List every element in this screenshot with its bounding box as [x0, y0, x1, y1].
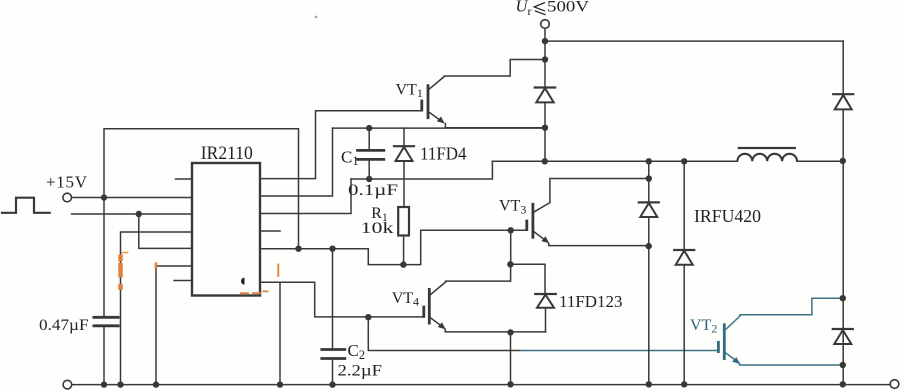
- node VT4 gate wire: [365, 314, 371, 320]
- node top rail: [542, 38, 548, 44]
- +15V terminal: [63, 193, 72, 202]
- node VT1 collector: [542, 56, 548, 62]
- wire HO pin y178.6 to VT1 gate: [260, 111, 422, 179]
- orange highlight marks: [118, 255, 123, 290]
- svg-text:IRFU420: IRFU420: [694, 206, 761, 226]
- wire VT2/VT4 gate line: [368, 317, 520, 350]
- wire pulse input to IC: [72, 213, 193, 215]
- node pulse junction: [136, 211, 142, 217]
- svg-text:2.2µF: 2.2µF: [338, 362, 383, 379]
- diode D6 x684: [683, 161, 685, 384]
- node loop-to-pin: [295, 246, 301, 252]
- node VT2 emitter: [840, 362, 846, 368]
- node VT3 gate: [508, 227, 514, 233]
- node y264: [507, 261, 513, 267]
- capacitor C1 0.1uF: [368, 128, 370, 179]
- wire C1 bottom to switch rail: [351, 161, 492, 179]
- node inductor right: [840, 158, 846, 164]
- top rail: [545, 40, 843, 42]
- node C1 bottom: [366, 176, 372, 182]
- wire VS pin y213.5 up to C1 bottom: [260, 179, 351, 214]
- wire VT2 emitter to right column: [740, 364, 843, 366]
- mark inside IC: [241, 278, 245, 285]
- wire pulse node down to IC pin: [139, 214, 192, 248]
- svg-text:11FD123: 11FD123: [559, 292, 623, 311]
- node VT4 emitter wire: [507, 329, 513, 335]
- IC right stub pin y231: [260, 230, 280, 232]
- IC stub pin y280.5: [174, 280, 192, 282]
- svg-text:IR2110: IR2110: [201, 143, 253, 164]
- pulse input waveform: [2, 198, 50, 213]
- diode D5 x648: [648, 161, 650, 384]
- svg-text:0.1µF: 0.1µF: [348, 182, 398, 199]
- diode 11FD123: [535, 293, 556, 295]
- wire VT4 collector up to node y264: [446, 264, 511, 281]
- IC U1 IR2110 body: [192, 163, 260, 296]
- node ground x280: [277, 381, 283, 387]
- node ground x156: [153, 381, 159, 387]
- terminal ground right: [890, 380, 899, 389]
- switch-node rail y161: [492, 160, 842, 162]
- capacitor C2 2.2uF: [320, 350, 346, 359]
- wire y264 to 11FD123: [510, 264, 545, 294]
- speck: [315, 16, 318, 19]
- wire VT1 emitter to VS node: [445, 124, 545, 128]
- wire +15V node down to 0.47uF cap: [103, 198, 105, 318]
- wire top node: [544, 28, 546, 87]
- node ground x510: [507, 381, 513, 387]
- node +15V junction: [101, 194, 107, 200]
- wire COM x280 down to ground: [279, 282, 281, 384]
- wire top-left feedback loop: [104, 129, 299, 249]
- node ground x120: [117, 381, 123, 387]
- terminal Ur: [541, 20, 550, 29]
- wire VT3 collector to D5 column: [550, 179, 649, 203]
- wire x510 down to ground: [510, 332, 512, 384]
- diode 11FD4: [403, 128, 405, 207]
- diode D0 across VT1: [535, 86, 555, 88]
- wire IC pin y266: [156, 266, 192, 385]
- ground rail: [72, 384, 891, 386]
- node ground x332: [329, 381, 335, 387]
- node VT2 collector: [840, 295, 846, 301]
- node VT1 emitter: [542, 125, 548, 131]
- svg-text:500V: 500V: [547, 0, 590, 16]
- inductor L1: [739, 147, 795, 149]
- wire C2 bottom to ground: [332, 359, 334, 385]
- node C1 top: [366, 125, 372, 131]
- IC stub pin y179: [176, 178, 193, 180]
- node ground x104: [101, 381, 107, 387]
- node ground x648: [646, 381, 652, 387]
- node rail x648.8: [646, 158, 652, 164]
- wire VS rail y128: [333, 127, 546, 129]
- wire VT1 collector to top node: [444, 60, 545, 77]
- diode D7 top right: [833, 93, 853, 95]
- node VT3 emitter wire: [646, 243, 652, 249]
- wire LO pin y282.3 to VT4 gate: [260, 282, 424, 317]
- terminal ground left: [63, 380, 72, 389]
- svg-text:11FD4: 11FD4: [420, 144, 467, 164]
- svg-text:10k: 10k: [361, 220, 394, 237]
- resistor R1 10k: [398, 207, 409, 236]
- wire VT3 emitter to D5 column: [549, 243, 649, 245]
- wire VB pin y196 up to C1 top rail: [260, 128, 333, 196]
- wire C2 branch x332.5: [332, 249, 334, 350]
- node ground x684: [681, 381, 687, 387]
- node ground x843: [840, 381, 846, 387]
- node C2 top: [329, 246, 335, 252]
- svg-text:+15V: +15V: [46, 172, 88, 191]
- wire IC pin y232: [121, 232, 193, 385]
- node VT3 collector wire: [646, 175, 652, 181]
- svg-text:r: r: [528, 4, 532, 18]
- wire VDD pin y248.7 to R1 bottom and VT3 gate: [260, 230, 527, 264]
- diode D8 bottom right: [833, 328, 853, 330]
- node rail x684.2: [681, 158, 687, 164]
- capacitor 0.47uF: [93, 317, 120, 326]
- right column x843: [842, 41, 844, 384]
- node R1 bottom: [400, 261, 406, 267]
- svg-text:0.47µF: 0.47µF: [39, 317, 89, 334]
- wire R1 bottom: [403, 236, 405, 265]
- wire +15V to IC: [72, 197, 193, 199]
- wire 0.47uF bottom to ground rail: [103, 326, 105, 385]
- wire VT2 collector to right column: [740, 298, 843, 315]
- wire VT3 gate node down: [510, 230, 512, 264]
- wire VT4 emitter to 11FD123 anode: [445, 329, 545, 332]
- node switch rail x545: [542, 158, 548, 164]
